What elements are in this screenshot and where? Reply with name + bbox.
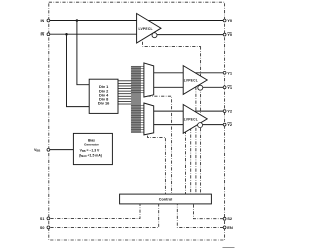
svg-text:(IMAX <1.5 mA): (IMAX <1.5 mA) xyxy=(79,154,102,159)
wire U1 output Y0b xyxy=(157,34,223,36)
select dash line mux M2 xyxy=(148,136,166,195)
IC boundary (dash-dot package outline) xyxy=(49,2,225,240)
svg-text:LVPECL: LVPECL xyxy=(138,27,152,31)
pin S1 xyxy=(47,217,50,220)
pin VBB xyxy=(47,148,50,151)
svg-text:LVPECL: LVPECL xyxy=(184,118,198,122)
margin mark bottom right xyxy=(223,247,235,249)
svg-text:VBB = −1.3 V: VBB = −1.3 V xyxy=(80,149,100,154)
dash route S0 to control xyxy=(50,204,158,228)
pin S2 xyxy=(223,217,226,220)
control dash line to buffer U3 (b) xyxy=(185,131,187,194)
svg-text:Generator: Generator xyxy=(84,142,100,146)
wire U3 output Y2 xyxy=(195,110,223,112)
svg-text:LVPECL: LVPECL xyxy=(184,79,198,83)
wire U2 output Y1 xyxy=(195,72,223,74)
junction on IN wire xyxy=(76,19,79,22)
pin Y0b xyxy=(223,33,226,36)
pin Y1 xyxy=(223,71,226,74)
dash route S2 to control xyxy=(194,204,224,219)
wire IN to divider input xyxy=(77,21,89,85)
pin INb xyxy=(47,33,50,36)
svg-text:VBB: VBB xyxy=(34,148,40,152)
svg-text:EN: EN xyxy=(227,225,233,230)
wire mux M2 to buffer U3 (+) xyxy=(154,110,184,112)
enable dash line vertical to control (U1) xyxy=(200,46,202,194)
enable dash line vertical to control (U2) xyxy=(195,87,197,194)
pin S0 xyxy=(47,226,50,229)
mux M1 xyxy=(144,63,154,97)
buffer U1 LVPECL xyxy=(137,14,161,44)
svg-text:Y0: Y0 xyxy=(227,18,233,23)
pin Y2b xyxy=(223,123,226,126)
wire U1 output Y0 xyxy=(148,20,223,22)
wire IN from pin to buffer U1 xyxy=(50,20,137,22)
wire mux M2 to buffer U3 (-) xyxy=(154,124,184,126)
pin EN xyxy=(223,226,226,229)
svg-text:Control: Control xyxy=(159,198,173,202)
wire INb from pin to buffer U1 xyxy=(50,33,137,35)
wire mux M1 to buffer U2 (-) xyxy=(154,86,184,88)
bias generator block xyxy=(73,133,112,164)
wire U3 output Y2b xyxy=(203,124,224,126)
inverting bubble U2 xyxy=(198,85,203,90)
svg-text:Y1: Y1 xyxy=(227,70,233,75)
svg-text:IN: IN xyxy=(41,33,45,37)
wire mux M1 to buffer U2 (+) xyxy=(154,72,184,74)
buffer U2 LVPECL xyxy=(183,66,207,95)
mux M2 xyxy=(144,103,154,135)
pin Y1b xyxy=(223,86,226,89)
svg-text:Y2: Y2 xyxy=(227,109,233,114)
wire U2 output Y1b xyxy=(203,86,223,88)
enable dash line to buffer U1 xyxy=(143,42,201,47)
divider block (Div 1/2/4/8/16) xyxy=(89,79,118,113)
svg-text:S1: S1 xyxy=(40,217,45,221)
buffer U3 LVPECL xyxy=(183,105,207,134)
control dash line to buffer U3 (a) xyxy=(190,128,192,194)
wire INb to divider input xyxy=(67,34,90,106)
inverting bubble U1 xyxy=(152,33,157,38)
pin Y0 xyxy=(223,19,226,22)
pin IN xyxy=(47,19,50,22)
control block xyxy=(120,194,212,204)
pin Y2 xyxy=(223,110,226,113)
divider output bus wires xyxy=(118,66,144,133)
dash route EN to control xyxy=(177,204,223,228)
inverting bubble U3 xyxy=(198,123,203,128)
dash route S1 to control xyxy=(50,204,140,219)
svg-text:S0: S0 xyxy=(40,226,45,230)
junction on INb wire xyxy=(65,33,68,36)
svg-text:S2: S2 xyxy=(227,216,233,221)
svg-text:Div 16: Div 16 xyxy=(98,101,110,106)
select dash line mux M1 xyxy=(148,96,172,194)
svg-text:IN: IN xyxy=(41,19,45,23)
wire VBB pin to bias generator xyxy=(50,149,74,151)
